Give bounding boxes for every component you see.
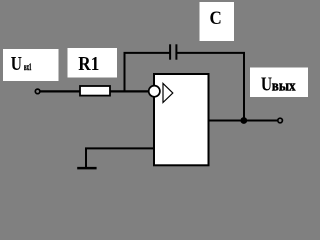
junction: feedback/output node xyxy=(240,117,247,124)
wire: feedback riser left xyxy=(124,52,126,92)
svg-text:вых: вых xyxy=(272,78,296,94)
svg-text:R1: R1 xyxy=(78,53,99,75)
svg-text:U: U xyxy=(11,53,22,75)
label R1 xyxy=(68,48,118,78)
label Uвх1 xyxy=(3,49,59,81)
wire: input terminal to resistor R1 xyxy=(40,90,81,92)
svg-text:U: U xyxy=(261,73,272,95)
capacitor C xyxy=(170,44,176,59)
wire: resistor R1 to op-amp inverting input xyxy=(109,90,152,92)
output terminal xyxy=(278,118,283,123)
wire: op-amp output to output terminal xyxy=(208,120,277,122)
label C xyxy=(200,2,235,41)
wire: feedback top, junction to capacitor C xyxy=(124,52,170,54)
wire: feedback riser right, down to output node xyxy=(243,53,245,121)
svg-text:вх1: вх1 xyxy=(24,63,32,73)
svg-text:C: C xyxy=(210,8,222,29)
wire: capacitor C to feedback riser right xyxy=(177,52,245,54)
input terminal xyxy=(35,89,40,94)
op-amp U1 body xyxy=(154,74,209,165)
label Uвых xyxy=(250,68,308,98)
op-amp U1 gain triangle xyxy=(163,83,173,102)
wire: op-amp second input to ground xyxy=(86,148,154,168)
ground xyxy=(77,167,96,170)
op-amp U1 inverting input bubble xyxy=(149,86,160,97)
resistor R1 body xyxy=(80,86,110,96)
